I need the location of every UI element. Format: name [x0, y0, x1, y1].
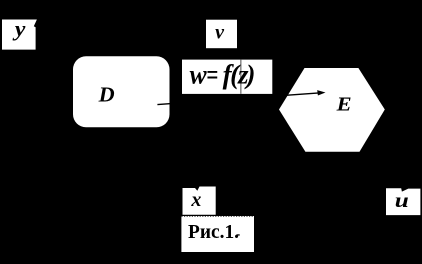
svg-text:Рис.1.: Рис.1.: [188, 221, 239, 243]
node x label box: [183, 187, 216, 215]
svg-text:D: D: [98, 82, 115, 106]
arrow from D to E: line: [157, 93, 319, 105]
dotted separator line above caption: [181, 215, 254, 217]
node v label box: [206, 20, 237, 49]
svg-text:w: w: [190, 59, 208, 89]
svg-text:u: u: [395, 190, 409, 212]
node y label box: [2, 20, 37, 50]
region D rounded rectangle: [73, 56, 170, 127]
node u label box: [386, 188, 420, 215]
formula text w = f(z): [190, 59, 256, 89]
arrow from D to E: head: [317, 90, 325, 95]
region E hexagon: [279, 68, 385, 152]
svg-text:v: v: [215, 22, 225, 44]
svg-text:=: =: [206, 59, 218, 89]
caption box: [181, 216, 254, 252]
svg-text:x: x: [190, 189, 201, 211]
svg-text:E: E: [336, 94, 352, 116]
small dash after caption: [237, 234, 240, 235]
w = f(z) formula box: [182, 60, 272, 94]
v-axis gray line through formula box: [240, 60, 242, 94]
